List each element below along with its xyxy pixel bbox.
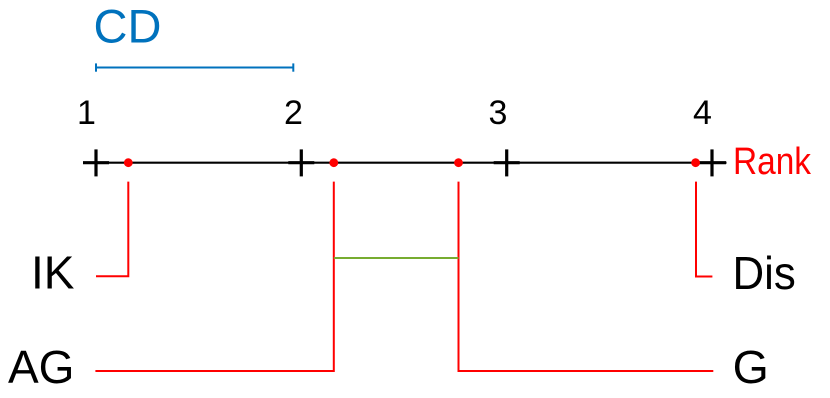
svg-text:Dis: Dis	[733, 247, 796, 299]
svg-text:G: G	[733, 341, 769, 393]
svg-text:2: 2	[284, 94, 303, 132]
rank dot AG	[329, 158, 338, 167]
Dis connector line	[696, 182, 712, 277]
svg-text:AG: AG	[8, 341, 74, 393]
CD interval bar	[96, 63, 293, 71]
rank dot IK	[124, 158, 133, 167]
svg-text:3: 3	[489, 94, 508, 132]
AG connector line	[95, 182, 333, 371]
svg-text:4: 4	[693, 94, 712, 132]
IK connector line	[96, 182, 128, 277]
axis tick marker 2	[288, 149, 314, 176]
axis tick marker 1	[83, 149, 109, 176]
clique line AG-G	[334, 257, 459, 259]
svg-text:Rank: Rank	[733, 141, 812, 183]
G connector line	[459, 182, 714, 371]
svg-text:1: 1	[77, 94, 96, 132]
svg-text:CD: CD	[94, 0, 162, 52]
rank dot G	[454, 158, 463, 167]
rank dot Dis	[691, 158, 700, 167]
axis tick marker 4	[699, 149, 726, 176]
rank axis line	[83, 162, 727, 164]
axis tick marker 3	[494, 149, 520, 176]
svg-text:IK: IK	[31, 247, 75, 299]
